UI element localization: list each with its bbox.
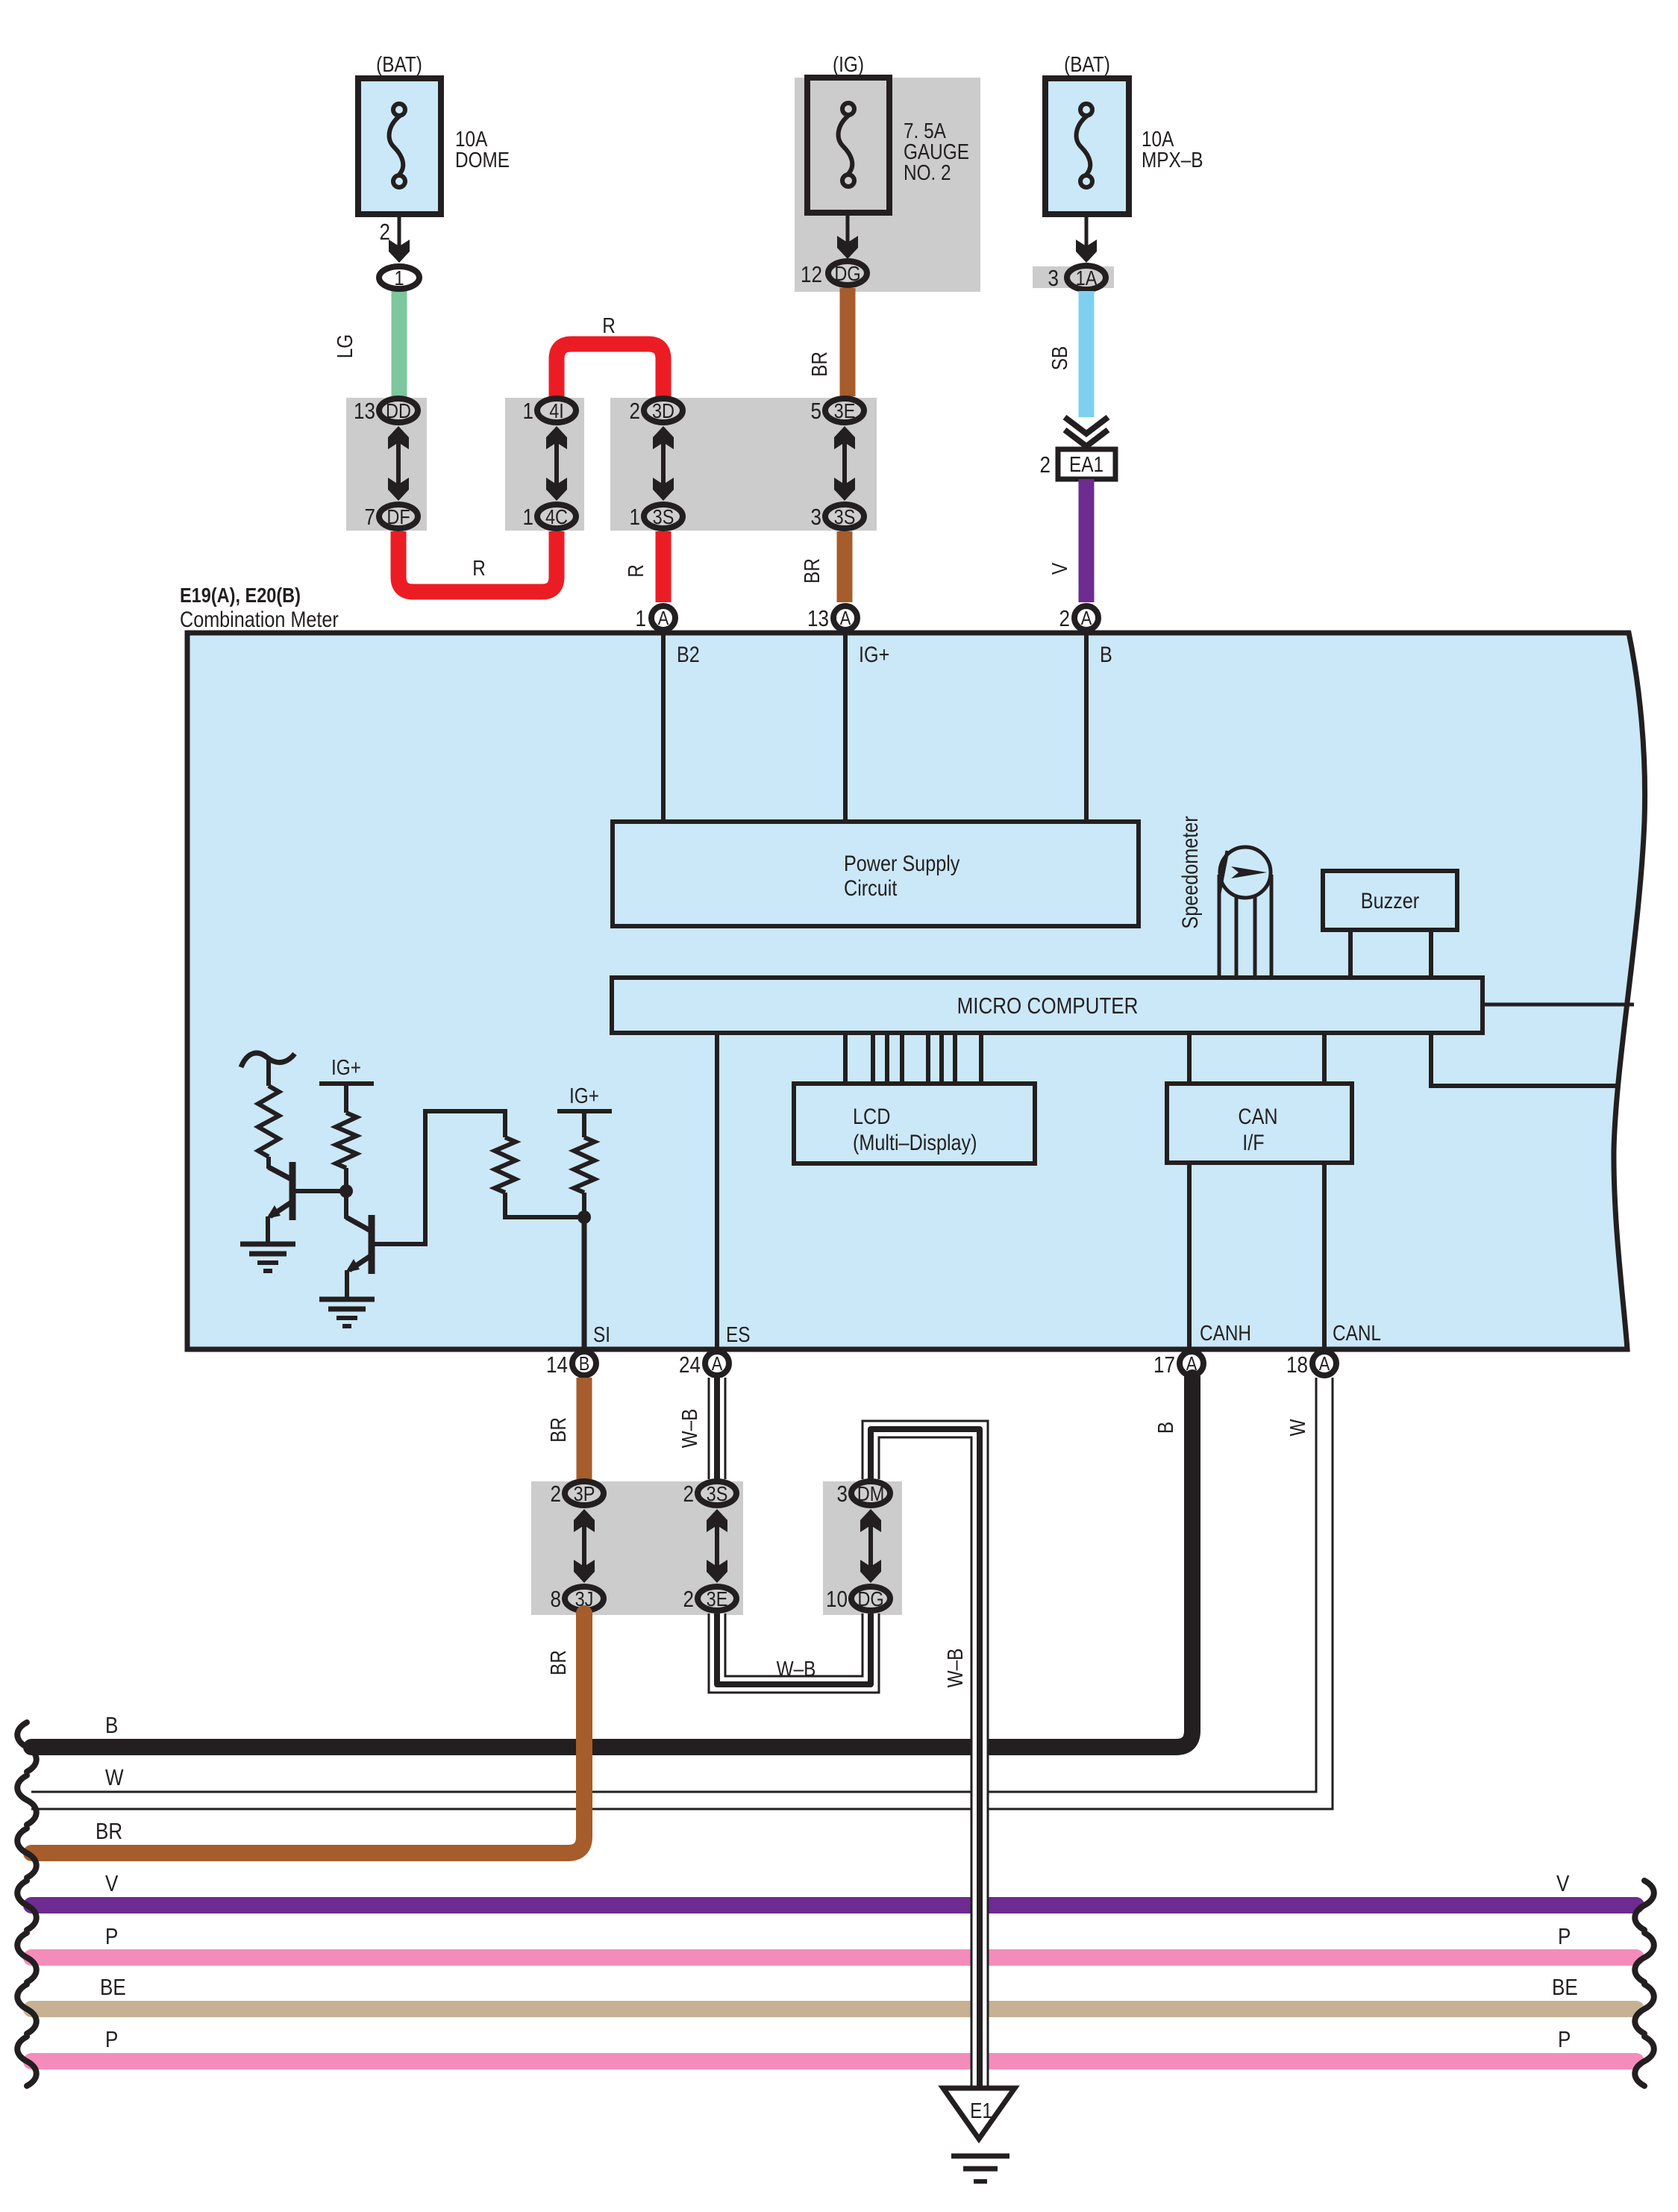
wire R1 to Q1 collector (266, 1157, 271, 1169)
connector 1 (fuse DOME) (379, 266, 419, 290)
svg-text:12: 12 (801, 262, 822, 288)
connector DM (851, 1481, 890, 1505)
svg-text:BR: BR (807, 352, 831, 377)
svg-text:I/F: I/F (1242, 1130, 1264, 1155)
break mark left BE bus (17, 1984, 37, 2034)
node base Q1 (339, 1184, 353, 1198)
svg-text:P: P (105, 1924, 118, 1950)
svg-text:IG+: IG+ (569, 1084, 599, 1107)
wire CANL inside meter (1322, 1163, 1327, 1349)
meter pin B (SI) (572, 1352, 596, 1375)
wire Q1 base to node (295, 1189, 346, 1193)
meter pin line IG+ (843, 627, 848, 822)
svg-text:(IG): (IG) (833, 52, 864, 76)
wire BR (brown) 3S to meter pin 13A (837, 531, 853, 602)
break mark right V bus (1635, 1881, 1654, 1930)
junction block bg (3P/3J,3S/3E connectors) (531, 1481, 743, 1615)
svg-text:2: 2 (551, 1481, 561, 1508)
svg-text:7: 7 (365, 504, 375, 531)
meter pin A (CANH) (1180, 1352, 1203, 1375)
svg-text:NO. 2: NO. 2 (904, 160, 951, 184)
svg-text:DOME: DOME (455, 148, 510, 172)
svg-text:B: B (1153, 1422, 1177, 1434)
connector DG (lower) (851, 1587, 890, 1610)
svg-text:W–B: W–B (677, 1409, 701, 1449)
junction block bg (DM/DG connector) (823, 1481, 902, 1615)
svg-text:Combination Meter: Combination Meter (180, 607, 339, 632)
meter pin A (B2) (651, 606, 675, 630)
resistor R3 (495, 1137, 516, 1193)
svg-text:Circuit: Circuit (844, 875, 898, 901)
wire W-B pin24 to 3S (709, 1378, 725, 1479)
svg-text:P: P (1558, 2027, 1571, 2053)
fuse 10A DOME box (358, 78, 441, 214)
connector 3P (565, 1481, 604, 1505)
svg-text:BR: BR (96, 1819, 122, 1845)
meter pin line B (1084, 627, 1089, 822)
svg-text:1: 1 (630, 504, 640, 531)
svg-text:Buzzer: Buzzer (1361, 888, 1419, 913)
ground Q2 (319, 1299, 375, 1326)
svg-text:24: 24 (679, 1352, 701, 1378)
meter pin line B2 (661, 627, 666, 822)
wire R (red) DF to 4C (398, 531, 557, 592)
svg-text:IG+: IG+ (331, 1055, 361, 1079)
junction block bg (1A connector) (1033, 266, 1114, 288)
svg-text:3P: 3P (574, 1483, 595, 1505)
svg-text:W–B: W–B (943, 1649, 967, 1688)
svg-text:3: 3 (1048, 266, 1059, 292)
svg-text:A: A (1081, 607, 1092, 629)
arrows DD-DF (388, 426, 409, 501)
junction block bg (DD/DF connector) (346, 398, 427, 531)
meter pin A (ES) (705, 1352, 729, 1375)
break mark left P bus (17, 1933, 37, 1982)
junction block bg (3D/3S,3E/3S connectors) (610, 398, 877, 531)
power supply circuit box (613, 822, 1139, 926)
connector DD (379, 399, 418, 422)
svg-text:1: 1 (394, 267, 404, 290)
fuse 7.5A GAUGE element (839, 103, 854, 187)
wire IG+ rail to R2 (344, 1084, 348, 1113)
break mark left BR bus (17, 1828, 37, 1878)
arrows 3D-3S (653, 426, 674, 501)
svg-text:DG: DG (834, 263, 860, 285)
break mark left B bus (17, 1722, 37, 1772)
fuse 10A MPX-B element (1077, 104, 1092, 187)
svg-text:R: R (624, 564, 648, 578)
connector 1A (1067, 266, 1106, 290)
svg-text:1: 1 (523, 504, 533, 531)
wire BR (brown) DG to 3E (840, 288, 856, 396)
connector 3S (lower) (698, 1481, 736, 1505)
wire Q2 base loop (375, 1111, 505, 1244)
svg-text:B: B (579, 1353, 590, 1375)
wire BR 3J to bus (31, 1613, 584, 1853)
wire SB (sky blue) 1A to EA1 (1079, 291, 1095, 417)
wire LG (green) DOME to DD (392, 290, 407, 396)
micro computer box (612, 978, 1483, 1033)
svg-text:A: A (840, 607, 851, 629)
svg-text:BE: BE (100, 1975, 126, 2001)
arrow fuse MPX-B output (1076, 214, 1097, 263)
svg-text:B: B (1100, 642, 1112, 667)
bus wire V (violet) (31, 1897, 1636, 1913)
LCD bus leads (845, 1033, 981, 1084)
arrows 3P-3J (574, 1509, 595, 1583)
bus wire B (black) (31, 1378, 1192, 1747)
svg-text:(BAT): (BAT) (376, 52, 422, 76)
CAN I/F upper leads (1189, 1033, 1324, 1084)
wire Q2 emitter to ground (345, 1270, 349, 1299)
svg-text:A: A (1319, 1353, 1330, 1375)
svg-text:SB: SB (1048, 346, 1071, 370)
svg-text:10: 10 (826, 1587, 848, 1613)
connector 3E (825, 399, 864, 422)
buzzer box (1323, 871, 1457, 930)
break mark left V bus (17, 1881, 37, 1930)
svg-text:MPX–B: MPX–B (1142, 148, 1203, 172)
svg-text:3E: 3E (707, 1588, 728, 1610)
wire R2 to Q2 collector (344, 1168, 348, 1219)
svg-text:BR: BR (800, 558, 824, 584)
svg-text:EA1: EA1 (1069, 452, 1103, 476)
bus wire P (pink) (31, 1949, 1636, 1966)
svg-text:BR: BR (546, 1650, 570, 1675)
bus wire BE (beige) (31, 2001, 1636, 2017)
resistor R1 (258, 1086, 279, 1157)
svg-text:(BAT): (BAT) (1064, 52, 1110, 76)
svg-text:DF: DF (386, 506, 410, 528)
svg-text:3E: 3E (834, 400, 856, 422)
svg-text:B2: B2 (677, 642, 700, 667)
fuse 7.5A GAUGE box (807, 78, 889, 213)
break mark right P2 bus (1635, 2037, 1654, 2086)
svg-text:SI: SI (593, 1322, 610, 1346)
connector EA1 (1058, 449, 1115, 479)
resistor R2 (336, 1113, 357, 1168)
svg-text:V: V (105, 1871, 118, 1897)
micro computer right link upper (1483, 1003, 1634, 1007)
node SI (577, 1210, 591, 1224)
connector 4C (537, 504, 576, 528)
svg-text:1: 1 (636, 606, 646, 632)
svg-text:3S: 3S (653, 506, 674, 528)
squiggle wire stub (241, 1053, 295, 1067)
transistor Q1 (266, 1162, 294, 1220)
connector 3D (644, 399, 683, 422)
svg-text:P: P (105, 2027, 118, 2053)
svg-text:LCD: LCD (853, 1104, 890, 1129)
wire R (red) 3S to meter pin 1A (656, 531, 671, 602)
break mark right P bus (1635, 1933, 1654, 1982)
arrows 3S-3E (707, 1509, 727, 1583)
connector 3J (565, 1587, 604, 1610)
svg-text:W–B: W–B (777, 1657, 816, 1681)
svg-text:B: B (105, 1713, 118, 1739)
svg-text:2: 2 (1040, 452, 1051, 478)
arrows 4I-4C (546, 426, 567, 501)
svg-text:Power Supply: Power Supply (844, 851, 960, 876)
wire R4 to node SI (582, 1193, 586, 1217)
LCD box (794, 1084, 1035, 1163)
svg-text:DM: DM (857, 1483, 885, 1505)
connector 3E (lower) (698, 1587, 736, 1610)
wire Q1 emitter to ground (266, 1216, 270, 1244)
svg-text:13: 13 (354, 399, 375, 425)
svg-text:3D: 3D (652, 400, 674, 422)
svg-text:Speedometer: Speedometer (1177, 816, 1203, 928)
break mark left P2 bus (17, 2037, 37, 2086)
wire ES inside meter (715, 1033, 719, 1349)
wire CANH inside meter (1187, 1163, 1192, 1349)
svg-text:ES: ES (726, 1322, 750, 1346)
wire W-B 3E to DG (709, 1613, 879, 1693)
speedometer gauge icon (1219, 847, 1271, 898)
svg-text:MICRO COMPUTER: MICRO COMPUTER (957, 993, 1139, 1019)
wire V (violet) EA1 to meter pin 2A (1079, 479, 1095, 602)
bus wire P2 (pink) (31, 2053, 1636, 2069)
connector 3S (644, 504, 683, 528)
IG+ rail 1 bar (319, 1081, 374, 1086)
wire BR pin14 to 3P (577, 1378, 592, 1479)
svg-text:2: 2 (380, 219, 390, 246)
double chevron into EA1 (1065, 417, 1108, 446)
connector 3S (right) (825, 504, 864, 528)
wire stub to R1 (266, 1060, 271, 1086)
svg-text:CANH: CANH (1200, 1321, 1251, 1345)
fuse 10A DOME element (389, 104, 405, 187)
ground E1 (943, 2088, 1015, 2181)
svg-text:BE: BE (1552, 1975, 1578, 2001)
micro computer right link lower (1431, 1033, 1617, 1086)
connector 4I (537, 399, 576, 422)
wire W-B DM to E1 ground (863, 1421, 988, 2088)
arrow fuse GAUGE output (837, 213, 858, 259)
svg-text:A: A (658, 607, 669, 629)
connector DG (gauge) (828, 261, 867, 285)
svg-text:R: R (602, 313, 616, 337)
svg-text:1: 1 (523, 399, 533, 425)
svg-text:3S: 3S (707, 1483, 728, 1505)
svg-text:5: 5 (811, 399, 821, 425)
fuse 10A MPX-B box (1045, 78, 1129, 214)
svg-text:CAN: CAN (1238, 1104, 1277, 1129)
svg-text:V: V (1556, 1871, 1569, 1897)
CAN I/F box (1167, 1084, 1352, 1163)
svg-text:3: 3 (811, 504, 821, 531)
svg-text:1A: 1A (1076, 267, 1098, 290)
svg-text:4I: 4I (549, 400, 564, 422)
wire IG+ rail 2 to R4 (582, 1111, 586, 1137)
svg-text:CANL: CANL (1333, 1321, 1381, 1345)
combination meter box E19/E20 (187, 633, 1645, 1349)
resistor R4 (574, 1137, 595, 1193)
meter pin A (CANL) (1312, 1352, 1336, 1375)
svg-text:14: 14 (546, 1352, 568, 1378)
arrow fuse DOME output (389, 214, 410, 263)
break mark left W bus (17, 1775, 37, 1825)
bus wire W (white) (31, 1378, 1333, 1809)
svg-text:2: 2 (683, 1481, 694, 1508)
svg-text:17: 17 (1153, 1352, 1175, 1378)
svg-text:2: 2 (630, 399, 640, 425)
ground Q1 (240, 1244, 295, 1271)
meter pin A (IG+) (833, 606, 857, 630)
svg-text:V: V (1048, 563, 1071, 575)
svg-text:3S: 3S (834, 506, 856, 528)
svg-text:(Multi–Display): (Multi–Display) (853, 1130, 977, 1155)
svg-text:R: R (472, 556, 486, 580)
svg-text:13: 13 (807, 606, 829, 632)
arrows DM-DG (860, 1509, 881, 1583)
svg-text:IG+: IG+ (859, 642, 889, 667)
svg-text:DD: DD (386, 400, 411, 422)
transistor Q2 (345, 1215, 373, 1274)
svg-text:2: 2 (1059, 606, 1070, 632)
svg-text:W: W (105, 1765, 124, 1791)
connector DF (379, 504, 418, 528)
junction block bg (4I/4C connector) (505, 398, 584, 531)
meter pin A (B) (1074, 606, 1098, 630)
svg-text:2: 2 (683, 1587, 694, 1613)
svg-text:E19(A), E20(B): E19(A), E20(B) (180, 584, 301, 607)
arrows 3E-3S (834, 426, 855, 501)
svg-text:DG: DG (857, 1588, 883, 1610)
svg-text:A: A (712, 1353, 723, 1375)
svg-text:18: 18 (1286, 1352, 1308, 1378)
svg-text:LG: LG (333, 334, 357, 358)
speedometer leads (1219, 875, 1271, 975)
svg-text:P: P (1558, 1924, 1571, 1950)
svg-text:4C: 4C (545, 506, 568, 528)
wire SI to pin 14 (582, 1217, 587, 1349)
IG+ rail 2 bar (557, 1109, 612, 1113)
wire R (red) 4I to 3D (557, 344, 663, 397)
break mark right BE bus (1635, 1984, 1654, 2034)
buzzer leads (1350, 930, 1431, 975)
svg-text:8: 8 (551, 1587, 561, 1613)
svg-text:E1: E1 (970, 2099, 992, 2122)
svg-text:3: 3 (837, 1481, 848, 1508)
svg-text:BR: BR (546, 1417, 570, 1443)
junction block bg (GAUGE fuse) (795, 78, 980, 292)
svg-text:W: W (1286, 1419, 1309, 1437)
wire R3 to node SI (505, 1193, 584, 1217)
